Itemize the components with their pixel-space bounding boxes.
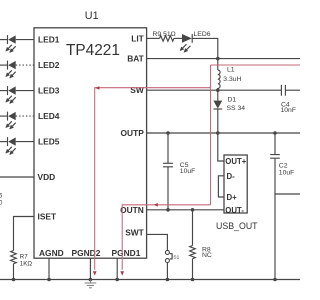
connector USB_OUT <box>216 155 258 231</box>
svg-text:1KΩ: 1KΩ <box>20 260 33 267</box>
svg-text:OUTP: OUTP <box>121 128 145 138</box>
node OUTP/C2 <box>273 131 277 135</box>
LED D-LED5 <box>0 137 34 154</box>
wire PGND1 <box>116 258 118 279</box>
svg-text:LED3: LED3 <box>38 86 60 96</box>
wire VDD <box>0 176 34 178</box>
LED D-LED6 <box>180 31 210 52</box>
capacitor C2 <box>270 133 294 280</box>
svg-text:6: 6 <box>0 194 3 200</box>
svg-text:ISET: ISET <box>38 212 57 222</box>
diode D1 <box>213 90 245 112</box>
switch S1 <box>165 250 179 262</box>
resistor R7 <box>11 251 33 268</box>
svg-text:PGND1: PGND1 <box>112 248 141 258</box>
svg-text:BAT: BAT <box>127 54 144 64</box>
wire PGND2 <box>89 258 91 279</box>
svg-text:AGND: AGND <box>39 248 64 258</box>
svg-text:OUTN: OUTN <box>120 205 144 215</box>
pink current loop 1 (SW to PGND2) <box>211 64 301 66</box>
svg-text:LED1: LED1 <box>38 35 60 45</box>
wire LED6 to BAT net <box>192 38 218 58</box>
svg-text:NC: NC <box>202 252 212 259</box>
svg-text:USB_OUT: USB_OUT <box>216 221 258 231</box>
op-amp U1 TP4221 IC body <box>34 10 147 258</box>
svg-text:LIT: LIT <box>131 33 144 43</box>
node R7/bus <box>12 278 16 282</box>
ground bus <box>0 279 300 281</box>
svg-text:SWT: SWT <box>125 228 144 238</box>
svg-text:SW: SW <box>130 85 144 95</box>
wire OUTP <box>147 132 300 134</box>
LED D-LED2 (dotted wire) <box>0 61 34 78</box>
LED D-LED3 <box>0 86 34 103</box>
node BAT/L1 <box>216 57 220 61</box>
node OUTP/D1 <box>216 131 220 135</box>
svg-text:L1: L1 <box>227 66 235 73</box>
svg-text:LED6: LED6 <box>194 31 211 38</box>
wire AGND <box>48 258 50 279</box>
pink arrow down at PGND2 <box>93 271 97 275</box>
svg-text:D-: D- <box>227 172 236 181</box>
wire SWT <box>147 234 168 250</box>
resistor R8 <box>190 210 212 280</box>
wire SW <box>147 89 282 91</box>
svg-text:U1: U1 <box>85 10 99 22</box>
resistor R9 <box>153 31 176 41</box>
svg-text:VDD: VDD <box>38 172 56 182</box>
pink arrow left at SW corner <box>95 86 99 90</box>
svg-text:LED2: LED2 <box>38 60 60 70</box>
wire OUTN <box>147 209 224 211</box>
wire D-/D+ tie <box>218 176 224 197</box>
svg-text:OUT+: OUT+ <box>225 157 246 166</box>
svg-text:D1: D1 <box>228 97 237 104</box>
wire ISET <box>14 217 35 251</box>
wire BAT <box>147 58 300 60</box>
svg-text:R9 51Ω: R9 51Ω <box>153 31 176 38</box>
svg-text:10nF: 10nF <box>281 107 297 114</box>
node OUTP/C5 <box>166 131 170 135</box>
svg-text:LED5: LED5 <box>38 137 60 147</box>
capacitor C4 <box>281 85 301 114</box>
wire R9 to LED6 <box>174 37 182 39</box>
capacitor C5 <box>163 133 195 210</box>
wire S1 to bus <box>166 263 168 280</box>
inductor L1 <box>218 59 242 91</box>
pink arrow down at PGND1 <box>120 271 124 275</box>
wire R7 to ground bus <box>13 264 15 280</box>
svg-text:SS 34: SS 34 <box>227 105 246 112</box>
ground symbol <box>85 280 97 288</box>
svg-text:10uF: 10uF <box>279 169 295 176</box>
pink current loop 2 (OUTN to PGND1) <box>122 205 210 270</box>
wire OUT+ branch <box>218 133 224 161</box>
svg-text:3.3uH: 3.3uH <box>223 76 241 83</box>
svg-text:TP4221: TP4221 <box>66 42 120 59</box>
svg-text:0: 0 <box>0 201 3 207</box>
pink arrow left near OUTN <box>154 203 158 207</box>
LED D-LED1 <box>0 35 34 52</box>
wire C2 to right edge <box>275 193 300 195</box>
svg-text:S1: S1 <box>173 254 179 260</box>
wire LIT to R9 <box>147 37 160 39</box>
node SW/L1/D1 <box>216 88 220 92</box>
svg-text:10uF: 10uF <box>180 168 196 175</box>
svg-text:D+: D+ <box>227 193 238 202</box>
svg-text:OUT-: OUT- <box>225 206 244 215</box>
LED D-LED4 (dotted wire) <box>0 112 34 129</box>
wire D1 to OUTP net <box>217 109 219 133</box>
svg-text:PGND2: PGND2 <box>72 248 101 258</box>
svg-text:LED4: LED4 <box>38 111 60 121</box>
